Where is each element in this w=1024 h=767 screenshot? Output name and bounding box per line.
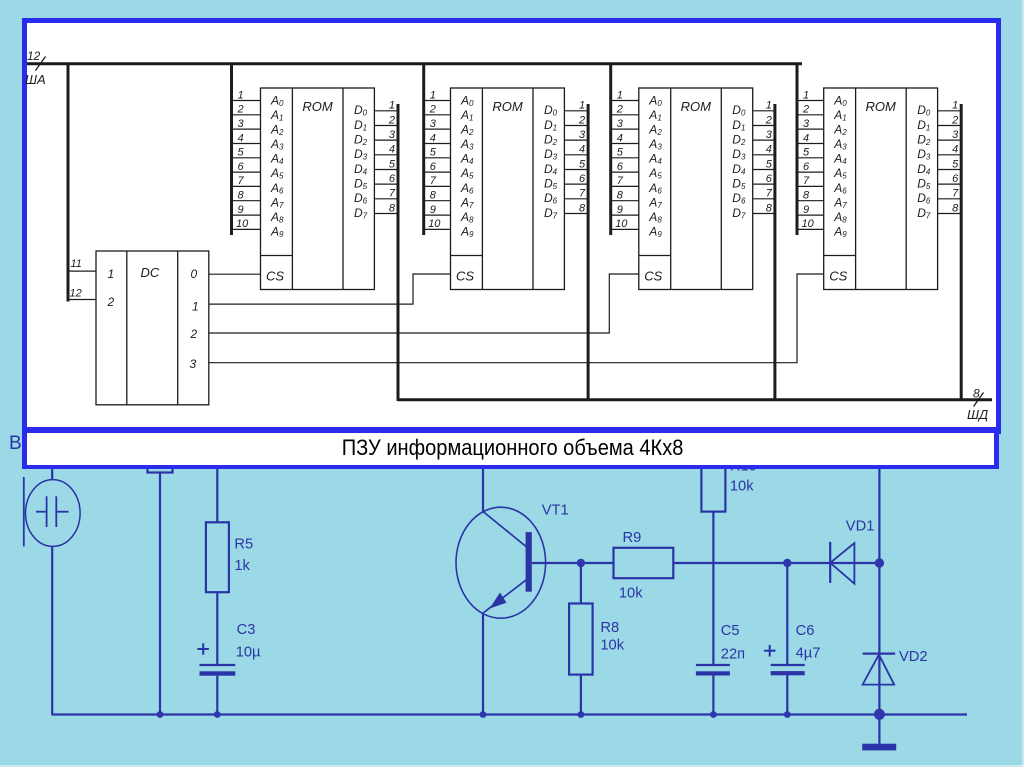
svg-text:A5: A5 bbox=[648, 166, 662, 181]
svg-text:D5: D5 bbox=[917, 177, 931, 192]
svg-text:D7: D7 bbox=[354, 206, 368, 221]
svg-text:10: 10 bbox=[615, 218, 628, 230]
pin stub A0 U3 bbox=[611, 100, 639, 102]
pin stub A7 U3 bbox=[611, 200, 639, 202]
pin stub D3 U1 bbox=[374, 154, 398, 156]
svg-text:D4: D4 bbox=[732, 162, 746, 177]
svg-text:1: 1 bbox=[803, 89, 809, 101]
pin stub A5 U2 bbox=[424, 171, 451, 173]
pin stub D2 U2 bbox=[564, 139, 588, 141]
resistor R8 bbox=[569, 604, 593, 675]
pin stub D3 U4 bbox=[938, 154, 962, 156]
wire to R5 bbox=[216, 462, 218, 522]
ROM chip U2 body bbox=[451, 88, 565, 290]
pin stub D5 U3 bbox=[753, 183, 775, 185]
svg-text:7: 7 bbox=[579, 188, 586, 200]
svg-text:A8: A8 bbox=[270, 210, 284, 225]
svg-text:A7: A7 bbox=[460, 195, 474, 210]
pin stub A7 U4 bbox=[797, 200, 824, 202]
pin stub A8 U3 bbox=[611, 214, 639, 216]
svg-text:4: 4 bbox=[238, 132, 244, 144]
svg-text:A7: A7 bbox=[833, 195, 847, 210]
svg-text:D0: D0 bbox=[544, 103, 558, 118]
pin stub A9 U2 bbox=[424, 228, 451, 230]
svg-text:2: 2 bbox=[190, 327, 198, 341]
diode VD2 bbox=[863, 654, 896, 685]
svg-text:8: 8 bbox=[238, 190, 245, 202]
resistor R10 (top behind caption) bbox=[701, 448, 725, 512]
pin stub D6 U3 bbox=[753, 198, 775, 200]
svg-text:5: 5 bbox=[389, 158, 396, 170]
wire C3 to rail bbox=[216, 676, 218, 715]
svg-text:4: 4 bbox=[430, 132, 436, 144]
pin stub D6 U4 bbox=[938, 198, 962, 200]
pin stub D7 U2 bbox=[564, 213, 588, 215]
bus ШД horizontal bbox=[398, 398, 992, 401]
svg-text:5: 5 bbox=[238, 147, 245, 159]
svg-text:2: 2 bbox=[802, 104, 809, 116]
svg-text:A2: A2 bbox=[648, 123, 662, 138]
svg-text:6: 6 bbox=[238, 161, 245, 173]
svg-text:4: 4 bbox=[579, 144, 585, 156]
transistor VT1 bbox=[456, 507, 546, 618]
svg-text:A9: A9 bbox=[833, 225, 847, 240]
pin stub A3 U4 bbox=[797, 143, 824, 145]
svg-text:10: 10 bbox=[428, 218, 441, 230]
pin stub A9 U1 bbox=[232, 228, 261, 230]
svg-text:6: 6 bbox=[766, 173, 773, 185]
svg-text:6: 6 bbox=[579, 173, 586, 185]
junction C5/rail bbox=[710, 711, 717, 718]
pin stub D2 U1 bbox=[374, 139, 398, 141]
svg-text:4: 4 bbox=[952, 144, 958, 156]
wire VD1 node vertical bbox=[878, 462, 880, 744]
svg-text:A1: A1 bbox=[270, 108, 283, 123]
pin stub A9 U3 bbox=[611, 228, 639, 230]
svg-text:12: 12 bbox=[27, 49, 41, 63]
svg-text:A9: A9 bbox=[270, 225, 284, 240]
svg-text:1: 1 bbox=[238, 89, 244, 101]
svg-text:D7: D7 bbox=[917, 206, 931, 221]
svg-text:1: 1 bbox=[579, 100, 585, 112]
svg-text:5: 5 bbox=[579, 158, 586, 170]
svg-text:CS: CS bbox=[456, 269, 474, 284]
pin stub A4 U4 bbox=[797, 157, 824, 159]
pin stub A7 U2 bbox=[424, 200, 451, 202]
pin stub D7 U3 bbox=[753, 213, 775, 215]
svg-text:7: 7 bbox=[430, 175, 437, 187]
ROM chip U1 body bbox=[261, 88, 375, 290]
svg-text:A8: A8 bbox=[833, 210, 847, 225]
svg-text:CS: CS bbox=[829, 269, 847, 284]
svg-text:CS: CS bbox=[644, 269, 662, 284]
svg-text:D5: D5 bbox=[354, 177, 368, 192]
pin stub A7 U1 bbox=[232, 200, 261, 202]
svg-text:A1: A1 bbox=[460, 108, 473, 123]
bus ША horizontal bbox=[27, 62, 802, 65]
svg-text:D5: D5 bbox=[544, 177, 558, 192]
svg-text:D0: D0 bbox=[917, 103, 931, 118]
svg-text:D7: D7 bbox=[544, 206, 558, 221]
svg-text:A3: A3 bbox=[648, 137, 662, 152]
svg-text:1: 1 bbox=[617, 89, 623, 101]
svg-text:3: 3 bbox=[238, 118, 245, 130]
ROM chip U4 body bbox=[824, 88, 938, 290]
svg-text:2: 2 bbox=[951, 114, 958, 126]
svg-text:9: 9 bbox=[617, 204, 623, 216]
svg-text:9: 9 bbox=[430, 204, 436, 216]
svg-text:A8: A8 bbox=[460, 210, 474, 225]
svg-text:7: 7 bbox=[238, 175, 245, 187]
svg-text:0: 0 bbox=[191, 267, 198, 281]
hidden resistor R4 (behind caption) bbox=[148, 448, 173, 473]
svg-text:7: 7 bbox=[952, 188, 959, 200]
svg-text:D1: D1 bbox=[917, 118, 930, 133]
svg-text:A2: A2 bbox=[833, 123, 847, 138]
pin stub A1 U4 bbox=[797, 114, 824, 116]
svg-text:D3: D3 bbox=[732, 147, 746, 162]
svg-text:ROM: ROM bbox=[866, 99, 897, 114]
pin stub A4 U3 bbox=[611, 157, 639, 159]
svg-text:5: 5 bbox=[952, 158, 959, 170]
pin stub A3 U2 bbox=[424, 143, 451, 145]
svg-text:8: 8 bbox=[389, 202, 396, 214]
slide edge highlights bbox=[1022, 0, 1024, 767]
svg-text:CS: CS bbox=[266, 269, 284, 284]
svg-text:4: 4 bbox=[617, 132, 623, 144]
svg-text:A9: A9 bbox=[648, 225, 662, 240]
bus width slash 12 bbox=[36, 57, 46, 71]
svg-text:5: 5 bbox=[803, 147, 810, 159]
svg-text:A2: A2 bbox=[460, 123, 474, 138]
pin stub D6 U1 bbox=[374, 198, 398, 200]
svg-text:A6: A6 bbox=[833, 181, 847, 196]
pin stub 12 DC bbox=[67, 299, 96, 301]
pin stub A6 U3 bbox=[611, 185, 639, 187]
pin stub A6 U4 bbox=[797, 185, 824, 187]
svg-text:3: 3 bbox=[430, 118, 437, 130]
svg-text:A7: A7 bbox=[648, 195, 662, 210]
data bus ROM4 bbox=[960, 104, 963, 401]
svg-text:2: 2 bbox=[765, 114, 772, 126]
svg-text:8: 8 bbox=[579, 202, 586, 214]
svg-text:A0: A0 bbox=[648, 94, 662, 109]
svg-text:A4: A4 bbox=[460, 152, 474, 167]
svg-text:1: 1 bbox=[389, 100, 395, 112]
svg-text:4: 4 bbox=[803, 132, 809, 144]
svg-text:4: 4 bbox=[766, 144, 772, 156]
wire R5 to C3 bbox=[216, 592, 218, 665]
svg-text:DC: DC bbox=[141, 265, 160, 280]
svg-text:3: 3 bbox=[190, 357, 197, 371]
svg-text:3: 3 bbox=[389, 129, 396, 141]
junction R4/rail bbox=[157, 711, 164, 718]
junction R8/rail bbox=[578, 711, 585, 718]
svg-text:A4: A4 bbox=[648, 152, 662, 167]
pin stub D1 U3 bbox=[753, 125, 775, 127]
pin stub A6 U2 bbox=[424, 185, 451, 187]
data bus ROM1 bbox=[397, 104, 400, 401]
pin stub A0 U1 bbox=[232, 100, 261, 102]
capacitor C5 bbox=[696, 665, 730, 676]
svg-text:A1: A1 bbox=[648, 108, 661, 123]
wire node to C6 bbox=[786, 563, 788, 665]
junction base node bbox=[577, 559, 585, 567]
pin stub D7 U4 bbox=[938, 213, 962, 215]
svg-text:ROM: ROM bbox=[302, 99, 333, 114]
pin stub A2 U3 bbox=[611, 128, 639, 130]
svg-text:D6: D6 bbox=[732, 191, 746, 206]
svg-text:A0: A0 bbox=[833, 94, 847, 109]
ground symbol bbox=[862, 744, 896, 751]
junction VD2/rail bbox=[874, 709, 885, 720]
svg-text:1: 1 bbox=[766, 100, 772, 112]
svg-text:D1: D1 bbox=[354, 118, 367, 133]
address bus tap ROM4 bbox=[796, 63, 799, 236]
svg-text:12: 12 bbox=[70, 288, 82, 300]
svg-text:1: 1 bbox=[108, 267, 115, 281]
wire C6 to rail bbox=[786, 675, 788, 715]
capacitor C6 polarized bbox=[771, 665, 805, 675]
pin stub A1 U2 bbox=[424, 114, 451, 116]
svg-text:A6: A6 bbox=[270, 181, 284, 196]
wire DC out0 to CS1 bbox=[209, 273, 261, 275]
wire emitter to rail bbox=[482, 612, 484, 714]
svg-text:D4: D4 bbox=[544, 162, 558, 177]
svg-text:A3: A3 bbox=[833, 137, 847, 152]
ground rail wire bbox=[52, 713, 968, 715]
pin stub A3 U3 bbox=[611, 143, 639, 145]
junction VD1 node bbox=[875, 558, 884, 567]
svg-text:3: 3 bbox=[952, 129, 959, 141]
svg-text:A3: A3 bbox=[460, 137, 474, 152]
svg-text:D1: D1 bbox=[544, 118, 557, 133]
svg-text:A4: A4 bbox=[833, 152, 847, 167]
junction C6/rail bbox=[784, 711, 791, 718]
pin stub D5 U2 bbox=[564, 183, 588, 185]
pin stub D4 U4 bbox=[938, 169, 962, 171]
svg-text:A6: A6 bbox=[648, 181, 662, 196]
svg-text:10: 10 bbox=[802, 218, 815, 230]
pin stub A3 U1 bbox=[232, 143, 261, 145]
svg-text:A5: A5 bbox=[460, 166, 474, 181]
decoder DC bbox=[96, 251, 209, 405]
data bus ROM2 bbox=[587, 104, 590, 401]
svg-text:A2: A2 bbox=[270, 123, 284, 138]
svg-text:A9: A9 bbox=[460, 225, 474, 240]
pin stub A1 U1 bbox=[232, 114, 261, 116]
pin stub A5 U1 bbox=[232, 171, 261, 173]
svg-text:7: 7 bbox=[803, 175, 810, 187]
wire bus drop to DC bbox=[67, 63, 70, 302]
svg-text:3: 3 bbox=[617, 118, 624, 130]
svg-text:3: 3 bbox=[803, 118, 810, 130]
svg-text:8: 8 bbox=[803, 190, 810, 202]
svg-text:6: 6 bbox=[617, 161, 624, 173]
pin stub A6 U1 bbox=[232, 185, 261, 187]
svg-text:6: 6 bbox=[430, 161, 437, 173]
svg-text:D5: D5 bbox=[732, 177, 746, 192]
wire R10 to C5 bbox=[712, 512, 714, 665]
svg-text:4: 4 bbox=[389, 144, 395, 156]
pin stub D3 U2 bbox=[564, 154, 588, 156]
bus width slash 8 bbox=[974, 393, 984, 407]
svg-text:2: 2 bbox=[388, 114, 395, 126]
svg-text:D1: D1 bbox=[732, 118, 745, 133]
svg-text:1: 1 bbox=[952, 100, 958, 112]
ROM chip U3 body bbox=[639, 88, 753, 290]
pin stub A4 U2 bbox=[424, 157, 451, 159]
pin stub A5 U4 bbox=[797, 171, 824, 173]
pin stub A1 U3 bbox=[611, 114, 639, 116]
svg-text:D6: D6 bbox=[354, 191, 368, 206]
resistor R5 bbox=[206, 522, 229, 592]
svg-text:D6: D6 bbox=[544, 191, 558, 206]
svg-text:A8: A8 bbox=[648, 210, 662, 225]
svg-text:ША: ША bbox=[25, 72, 46, 87]
pin stub D0 U4 bbox=[938, 110, 962, 112]
pin stub A0 U4 bbox=[797, 100, 824, 102]
svg-text:A1: A1 bbox=[833, 108, 846, 123]
wire C5 to rail bbox=[712, 676, 714, 715]
diode VD1 bbox=[830, 542, 854, 584]
pin stub D2 U4 bbox=[938, 139, 962, 141]
svg-text:A6: A6 bbox=[460, 181, 474, 196]
svg-text:A0: A0 bbox=[460, 94, 474, 109]
data bus ROM3 bbox=[773, 104, 776, 401]
pin stub D2 U3 bbox=[753, 139, 775, 141]
address bus tap ROM3 bbox=[609, 63, 612, 236]
svg-text:6: 6 bbox=[952, 173, 959, 185]
wire DC out2 to CS3 bbox=[209, 274, 639, 333]
svg-text:9: 9 bbox=[238, 204, 244, 216]
svg-text:5: 5 bbox=[766, 158, 773, 170]
svg-text:ШД: ШД bbox=[967, 407, 988, 422]
resistor R9 bbox=[614, 548, 674, 578]
svg-text:7: 7 bbox=[766, 188, 773, 200]
wire R4 to rail bbox=[159, 473, 161, 715]
pin stub D1 U2 bbox=[564, 125, 588, 127]
svg-text:9: 9 bbox=[803, 204, 809, 216]
white schematic box bbox=[22, 18, 1001, 434]
wire R9 to VD1 node bbox=[673, 562, 879, 564]
pin stub A9 U4 bbox=[797, 228, 824, 230]
pin stub A4 U1 bbox=[232, 157, 261, 159]
svg-text:2: 2 bbox=[237, 104, 244, 116]
svg-text:D3: D3 bbox=[354, 147, 368, 162]
wire DC out3 to CS4 bbox=[209, 274, 824, 363]
pin stub A0 U2 bbox=[424, 100, 451, 102]
svg-text:D3: D3 bbox=[917, 147, 931, 162]
svg-text:A3: A3 bbox=[270, 137, 284, 152]
svg-text:10: 10 bbox=[236, 218, 249, 230]
pin stub D3 U3 bbox=[753, 154, 775, 156]
caption band bbox=[22, 427, 999, 469]
svg-text:D2: D2 bbox=[732, 133, 746, 148]
svg-text:11: 11 bbox=[71, 258, 82, 270]
svg-text:5: 5 bbox=[430, 147, 437, 159]
pin stub A2 U2 bbox=[424, 128, 451, 130]
svg-text:2: 2 bbox=[616, 104, 623, 116]
svg-text:A4: A4 bbox=[270, 152, 284, 167]
pin stub D4 U2 bbox=[564, 169, 588, 171]
pin stub D0 U1 bbox=[374, 110, 398, 112]
address bus tap ROM2 bbox=[422, 63, 425, 236]
pin stub A8 U1 bbox=[232, 214, 261, 216]
pin stub D0 U3 bbox=[753, 110, 775, 112]
svg-text:6: 6 bbox=[803, 161, 810, 173]
svg-text:7: 7 bbox=[389, 188, 396, 200]
svg-text:2: 2 bbox=[429, 104, 436, 116]
microphone BM1 bbox=[24, 462, 80, 546]
svg-text:8: 8 bbox=[952, 202, 959, 214]
svg-text:2: 2 bbox=[578, 114, 585, 126]
svg-text:D4: D4 bbox=[917, 162, 931, 177]
plus sign C6 bbox=[764, 645, 776, 657]
pin stub A8 U2 bbox=[424, 214, 451, 216]
svg-text:1: 1 bbox=[192, 300, 199, 314]
caption text bbox=[67, 432, 958, 463]
pin stub D1 U4 bbox=[938, 125, 962, 127]
pin stub D4 U3 bbox=[753, 169, 775, 171]
pin stub D5 U1 bbox=[374, 183, 398, 185]
svg-text:A5: A5 bbox=[270, 166, 284, 181]
pin stub D0 U2 bbox=[564, 110, 588, 112]
pin stub A2 U1 bbox=[232, 128, 261, 130]
svg-text:D0: D0 bbox=[732, 103, 746, 118]
pin stub D7 U1 bbox=[374, 213, 398, 215]
svg-text:2: 2 bbox=[107, 295, 115, 309]
svg-text:6: 6 bbox=[389, 173, 396, 185]
wire base node to R8 bbox=[580, 563, 582, 604]
junction emitter/rail bbox=[480, 711, 487, 718]
pin stub 11 DC bbox=[67, 270, 96, 272]
pin stub D6 U2 bbox=[564, 198, 588, 200]
junction C6 top node bbox=[783, 559, 791, 567]
address bus tap ROM1 bbox=[230, 63, 233, 236]
wire DC out1 to CS2 bbox=[209, 274, 451, 304]
svg-text:8: 8 bbox=[430, 190, 437, 202]
svg-text:D4: D4 bbox=[354, 162, 368, 177]
capacitor C3 polarized bbox=[200, 665, 236, 676]
svg-text:8: 8 bbox=[617, 190, 624, 202]
svg-text:A7: A7 bbox=[270, 195, 284, 210]
svg-text:3: 3 bbox=[579, 129, 586, 141]
svg-text:ROM: ROM bbox=[681, 99, 712, 114]
svg-text:7: 7 bbox=[617, 175, 624, 187]
svg-text:D7: D7 bbox=[732, 206, 746, 221]
pin stub D4 U1 bbox=[374, 169, 398, 171]
svg-text:8: 8 bbox=[766, 202, 773, 214]
pin stub A5 U3 bbox=[611, 171, 639, 173]
pin stub D1 U1 bbox=[374, 125, 398, 127]
svg-text:ROM: ROM bbox=[492, 99, 523, 114]
wire R8 to rail bbox=[580, 675, 582, 715]
svg-text:A0: A0 bbox=[270, 94, 284, 109]
wire base VT1 to R9 bbox=[532, 562, 614, 564]
pin stub A8 U4 bbox=[797, 214, 824, 216]
svg-text:A5: A5 bbox=[833, 166, 847, 181]
svg-text:1: 1 bbox=[430, 89, 436, 101]
plus sign C3 bbox=[197, 643, 209, 655]
junction C3/rail bbox=[214, 711, 221, 718]
svg-text:D2: D2 bbox=[354, 133, 368, 148]
pin stub A2 U4 bbox=[797, 128, 824, 130]
svg-text:D2: D2 bbox=[917, 133, 931, 148]
svg-text:5: 5 bbox=[617, 147, 624, 159]
svg-text:D6: D6 bbox=[917, 191, 931, 206]
wire microphone to ground rail bbox=[51, 546, 53, 714]
